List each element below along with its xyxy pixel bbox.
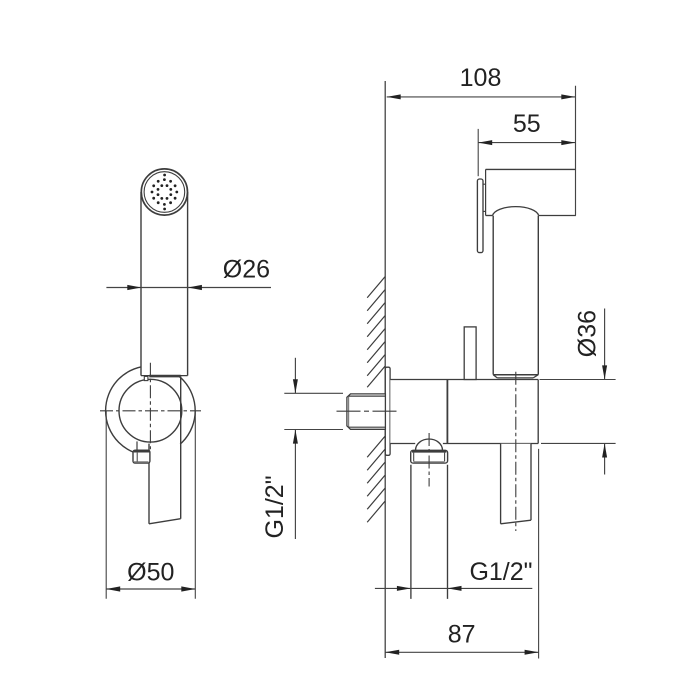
valve body [390, 380, 538, 444]
dimension 87 [385, 449, 538, 659]
wall line (also 108 left extension) [384, 81, 386, 658]
svg-text:Ø36: Ø36 [573, 310, 601, 357]
bracket outer circle Ø50 [106, 366, 196, 456]
wall hatching lower [367, 436, 385, 522]
outlet tube below valve [411, 465, 448, 599]
handle lower cone (front view) [149, 377, 181, 524]
outlet dome cap [416, 439, 443, 450]
wall flange (escutcheon) [385, 367, 390, 455]
sprayer tube (side view) [493, 216, 538, 375]
centerline horizontal (bracket) [100, 410, 201, 412]
handle lower cone (side view, behind valve) [501, 444, 531, 524]
dimension Ø36 [540, 309, 616, 475]
centerline of sprayer tube [515, 372, 517, 531]
svg-text:Ø50: Ø50 [127, 559, 174, 587]
grip bottom edge [141, 375, 188, 377]
bracket inner circle [119, 379, 182, 442]
svg-text:55: 55 [513, 110, 541, 138]
sprayer head body (side view) [486, 169, 576, 215]
extension line right of Ø50 [194, 411, 196, 599]
svg-text:87: 87 [448, 620, 476, 648]
dimension 55 [478, 110, 575, 176]
wall hatching upper [367, 277, 385, 388]
spray face plate (side view) [477, 179, 483, 253]
face plate connector [483, 184, 486, 211]
dimension Ø26 [106, 255, 271, 290]
spray nozzle dots [151, 174, 179, 211]
svg-text:G1/2": G1/2" [469, 558, 532, 586]
tube bottom chamfer ring [493, 375, 538, 378]
holder pin (front view) [144, 376, 148, 380]
grip bottom collar (thick) [149, 375, 180, 378]
spray head face [141, 169, 187, 215]
hose nut (front view, partly hidden) [133, 450, 150, 463]
centerline of inlet nipple [337, 410, 399, 412]
outlet hose nut (side view) [411, 450, 448, 463]
holder pin (side view) [464, 327, 476, 380]
svg-text:108: 108 [460, 64, 502, 92]
dimension G1/2" (inlet, left) [261, 358, 343, 539]
centerline vertical (bracket) [149, 363, 151, 450]
outlet glimpse line above nut [136, 441, 138, 450]
threaded inlet nipple [347, 394, 386, 429]
svg-text:G1/2": G1/2" [261, 475, 289, 538]
dimension Ø50 [106, 559, 195, 592]
dimension G1/2" (outlet, bottom) [375, 558, 533, 591]
centerline of outlet [428, 433, 430, 487]
sprayer grip tube (front view) [141, 192, 188, 376]
head shoulder arc [493, 207, 539, 216]
svg-text:Ø26: Ø26 [223, 255, 270, 283]
valve body divider line [446, 380, 448, 444]
dimension 108 [387, 64, 576, 216]
extension line left of Ø50 [105, 411, 107, 599]
